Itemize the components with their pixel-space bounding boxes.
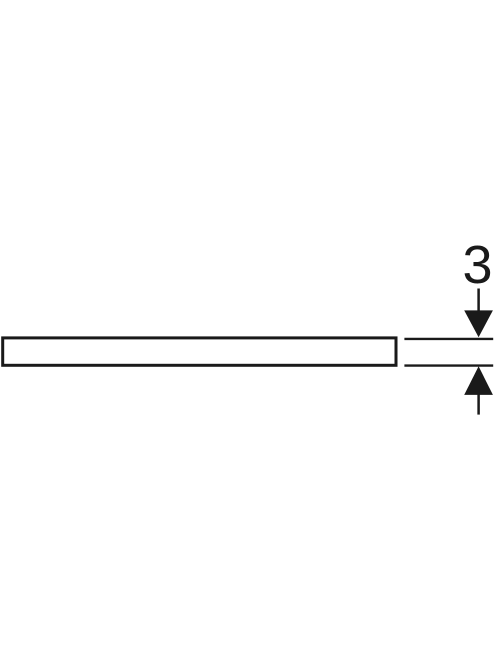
svg-text:3: 3 — [462, 235, 492, 295]
dimension arrow down — [464, 310, 493, 337]
extension line bottom — [404, 364, 493, 366]
extension line top — [404, 338, 493, 340]
panel (side view of thin plate) — [3, 338, 396, 365]
dimension arrow up — [464, 366, 493, 395]
dimension leader lower segment — [477, 394, 480, 415]
dimension leader upper segment — [477, 289, 480, 313]
